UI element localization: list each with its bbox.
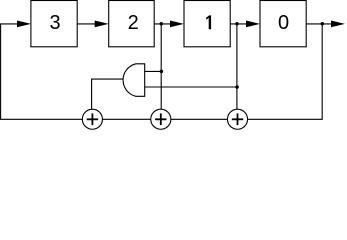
arrowhead output right — [331, 21, 345, 28]
XOR gate X1 — [82, 109, 102, 129]
register box 0 — [260, 1, 306, 47]
register box 3 — [31, 1, 77, 47]
svg-text:0: 0 — [278, 12, 289, 34]
junction dot: bit0 tap — [321, 22, 325, 26]
XOR gate X3 — [227, 109, 247, 129]
wire: AND gate bottom input stub — [145, 86, 237, 88]
register box 1 — [184, 1, 230, 47]
wire: box0 to output arrow — [306, 23, 332, 25]
arrowhead into box 0 — [246, 21, 260, 28]
arrowhead into box 3 — [17, 21, 31, 28]
junction dot: AND top input on tap line — [160, 70, 164, 74]
wire: box1 to box0 — [230, 23, 246, 25]
register box 2 — [109, 1, 155, 47]
wire: tap from bit0 output down and left to XOR3 — [248, 24, 322, 119]
junction dot: bit1 tap — [235, 22, 239, 26]
junction dot: AND bottom input on tap line — [235, 85, 239, 89]
svg-text:3: 3 — [49, 12, 60, 34]
junction dot: bit2 tap — [160, 22, 164, 26]
wire: box3 to box2 — [77, 23, 95, 25]
wire: feedback left vertical — [1, 24, 83, 119]
wire: XOR1 to XOR2 — [103, 118, 151, 120]
wire: box2 to box1 — [154, 23, 170, 25]
wire: tap vertical from bit2 output down to XOR2 — [160, 24, 162, 109]
wire: XOR2 to XOR3 — [171, 118, 227, 120]
arrowhead into box 2 — [95, 21, 109, 28]
AND gate U1 (pointing left) — [123, 64, 145, 97]
XOR gate X2 — [151, 109, 171, 129]
arrowhead into box 1 — [170, 21, 184, 28]
svg-text:2: 2 — [128, 12, 139, 34]
label: bit 1 (custom glyph) — [206, 15, 211, 29]
wire: AND gate output to XOR1 top — [92, 79, 123, 109]
wire: tap vertical from bit1 output down to XOR3 — [236, 24, 238, 109]
wire: AND gate top input stub — [145, 70, 162, 72]
